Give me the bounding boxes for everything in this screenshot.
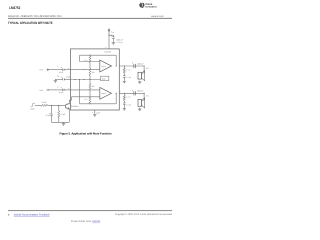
svg-text:1.7k: 1.7k xyxy=(84,98,87,101)
svg-text:20k: 20k xyxy=(92,85,95,88)
svg-text:TYPICAL APPLICATION WITH MUTE: TYPICAL APPLICATION WITH MUTE xyxy=(8,21,53,25)
svg-text:10 kΩ: 10 kΩ xyxy=(60,113,65,116)
svg-text:1000 μF: 1000 μF xyxy=(137,62,145,65)
svg-text:Mute: Mute xyxy=(31,107,35,110)
svg-text:Copyright © 2000–2013, Texas I: Copyright © 2000–2013, Texas Instruments… xyxy=(115,213,173,216)
svg-text:0.1 μF: 0.1 μF xyxy=(126,103,131,106)
svg-text:1000 μF: 1000 μF xyxy=(116,38,124,41)
svg-text:+ 0.1 μF: + 0.1 μF xyxy=(116,41,124,44)
svg-text:0.1 μF: 0.1 μF xyxy=(126,76,131,79)
svg-text:www.ti.com: www.ti.com xyxy=(151,15,163,18)
svg-text:Bias: Bias xyxy=(102,78,106,81)
svg-text:LM4752: LM4752 xyxy=(9,6,20,10)
svg-text:Submit Documentation Feedback: Submit Documentation Feedback xyxy=(14,214,50,217)
svg-text:1.7k: 1.7k xyxy=(84,59,87,62)
svg-text:1000 μF: 1000 μF xyxy=(137,90,145,93)
svg-text:INSTRUMENTS: INSTRUMENTS xyxy=(145,6,157,9)
svg-text:SNAS104C –FEBRUARY 2000–REVISE: SNAS104C –FEBRUARY 2000–REVISED APRIL 20… xyxy=(8,15,62,18)
svg-text:LM4752: LM4752 xyxy=(104,50,111,53)
svg-text:10 kΩ: 10 kΩ xyxy=(42,101,47,104)
svg-text:20k: 20k xyxy=(92,71,95,74)
svg-text:Figure 5. Application with Mut: Figure 5. Application with Mute Function xyxy=(59,131,111,135)
svg-text:2N3904: 2N3904 xyxy=(72,105,78,108)
svg-text:Product Folder Links: LM4752: Product Folder Links: LM4752 xyxy=(71,220,101,223)
